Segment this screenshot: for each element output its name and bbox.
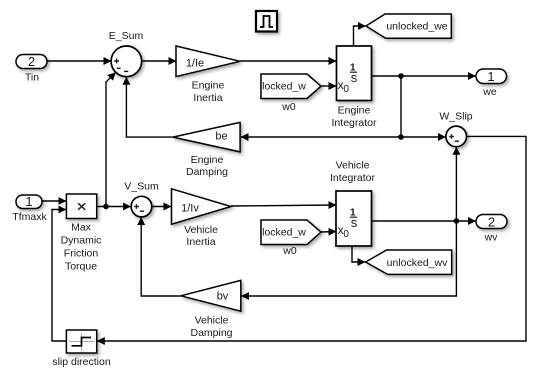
svg-text:Tin: Tin xyxy=(25,72,39,84)
svg-text:Damping: Damping xyxy=(186,166,228,178)
svg-text:Engine: Engine xyxy=(192,80,225,92)
svg-text:Vehicle: Vehicle xyxy=(195,314,229,326)
svg-text:Inertia: Inertia xyxy=(186,236,215,248)
svg-text:locked_w: locked_w xyxy=(262,81,306,93)
svg-text:unlocked_wv: unlocked_wv xyxy=(387,257,448,269)
svg-text:be: be xyxy=(215,131,227,143)
svg-text:bv: bv xyxy=(217,290,229,302)
svg-text:w0: w0 xyxy=(282,245,297,257)
svg-text:Vehicle: Vehicle xyxy=(336,160,370,172)
svg-text:E_Sum: E_Sum xyxy=(109,30,144,42)
svg-text:Dynamic: Dynamic xyxy=(61,234,102,246)
svg-text:0: 0 xyxy=(343,229,349,240)
svg-text:Inertia: Inertia xyxy=(193,92,222,104)
svg-text:wv: wv xyxy=(484,232,499,244)
svg-text:Engine: Engine xyxy=(191,154,224,166)
svg-text:0: 0 xyxy=(343,84,349,95)
svg-text:1: 1 xyxy=(487,69,494,84)
svg-text:Integrator: Integrator xyxy=(332,117,377,129)
svg-text:1/Ie: 1/Ie xyxy=(186,58,204,70)
svg-text:locked_w: locked_w xyxy=(262,227,306,239)
svg-text:Max: Max xyxy=(71,222,92,234)
svg-text:V_Sum: V_Sum xyxy=(124,181,159,193)
svg-text:1/Iv: 1/Iv xyxy=(181,203,199,215)
svg-text:Damping: Damping xyxy=(190,327,232,339)
svg-text:1: 1 xyxy=(25,194,32,209)
svg-text:2: 2 xyxy=(488,214,495,229)
svg-text:Torque: Torque xyxy=(65,260,97,272)
svg-text:unlocked_we: unlocked_we xyxy=(386,21,447,33)
svg-text:Tfmaxk: Tfmaxk xyxy=(12,211,47,223)
svg-text:we: we xyxy=(482,86,497,98)
svg-text:Engine: Engine xyxy=(338,105,371,117)
svg-text:2: 2 xyxy=(28,54,35,69)
svg-text:slip direction: slip direction xyxy=(52,356,111,368)
svg-text:Vehicle: Vehicle xyxy=(184,224,218,236)
svg-text:Integrator: Integrator xyxy=(330,172,375,184)
svg-text:W_Slip: W_Slip xyxy=(439,111,472,123)
svg-text:Friction: Friction xyxy=(64,247,99,259)
svg-text:w0: w0 xyxy=(281,101,296,113)
